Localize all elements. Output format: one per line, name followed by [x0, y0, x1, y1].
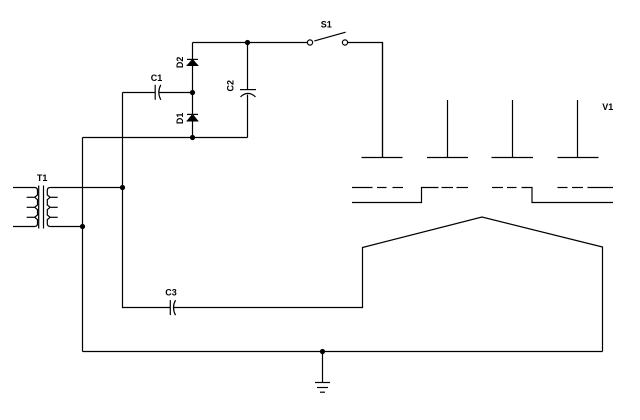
core — [38, 186, 40, 229]
wire left vertical from node to bottom rail — [82, 138, 84, 352]
capacitor C2 — [226, 43, 256, 138]
plate lead 1 — [382, 43, 384, 158]
secondary winding — [47, 188, 122, 227]
switch S1 — [307, 20, 347, 46]
capacitor C3 — [123, 288, 363, 316]
svg-text:D1: D1 — [175, 113, 185, 125]
node diode bottom dot — [190, 135, 195, 140]
svg-text:C3: C3 — [165, 288, 177, 298]
transformer T1 — [13, 173, 123, 228]
wire D1 bottom node to C2 bottom and to left vertical — [83, 137, 248, 139]
left stepped electrode — [352, 188, 439, 203]
node transformer secondary bottom dot — [80, 224, 85, 229]
node transformer secondary top dot — [120, 185, 125, 190]
right grid dashed — [492, 187, 503, 189]
svg-text:V1: V1 — [602, 102, 613, 112]
node ground junction dot — [320, 349, 325, 354]
plate lead 3 — [512, 100, 514, 158]
svg-text:S1: S1 — [321, 20, 332, 30]
plate lead 4 — [577, 100, 579, 158]
primary winding — [13, 188, 38, 227]
right stepped electrode — [522, 188, 614, 203]
svg-text:C1: C1 — [151, 73, 163, 83]
svg-text:D2: D2 — [175, 57, 185, 69]
node top junction dot at C2 top — [245, 40, 250, 45]
svg-text:C2: C2 — [226, 80, 236, 92]
tube V1 — [352, 43, 613, 352]
wire switch to tube lead 1 — [348, 43, 383, 158]
plate lead 2 — [447, 100, 449, 158]
cathode roof shape — [363, 217, 603, 352]
ground — [315, 352, 330, 393]
capacitor C1 — [123, 73, 193, 100]
wire C1/C3 left vertical — [122, 93, 124, 309]
wire top rail from diode chain to switch — [193, 42, 308, 44]
wire bottom rail — [83, 351, 603, 353]
svg-text:T1: T1 — [37, 173, 48, 183]
node diode midpoint dot — [190, 90, 195, 95]
diode D1 — [175, 113, 198, 125]
diode D2 — [175, 57, 198, 69]
left grid dashed — [352, 187, 373, 189]
wire diode chain vertical — [192, 43, 194, 138]
